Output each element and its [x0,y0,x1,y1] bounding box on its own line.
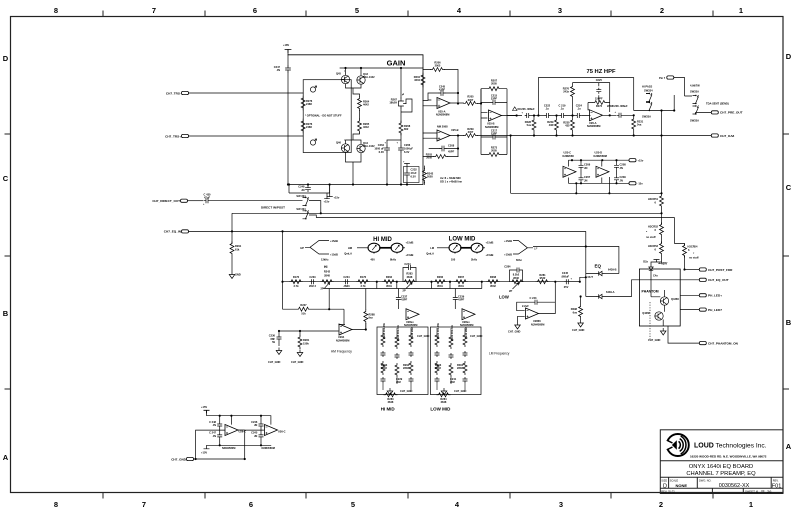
svg-text:+15dB: +15dB [406,241,414,245]
resistor R208 [399,121,411,135]
svg-text:H3CR53: H3CR53 [648,244,659,248]
title block outline [660,430,783,494]
wire main vertical right [661,111,663,195]
svg-text:R176: R176 [293,275,300,279]
svg-text:-15v: -15v [638,182,644,186]
resistor R207 [481,79,507,91]
pot loop B C284 [504,265,524,294]
wire to caps [387,133,401,146]
svg-text:SW33A: SW33A [642,115,651,119]
svg-text:SW33A: SW33A [690,90,699,94]
svg-text:+18V: +18V [283,43,289,47]
svg-text:+15v: +15v [638,159,644,163]
svg-text:OUT: OUT [588,275,594,279]
svg-text:1000 uF: 1000 uF [374,147,384,151]
switch HI PASS SW334 [634,85,675,119]
wire gain box left [287,72,289,185]
svg-text:C266: C266 [404,143,411,147]
svg-text:JN: JN [254,434,257,438]
svg-text:C: C [3,174,9,183]
svg-text:5va: 5va [637,123,642,127]
svg-text:C242 2N2: C242 2N2 [464,327,468,339]
switch SW33A right [674,84,711,123]
svg-text:6.3V: 6.3V [379,150,385,154]
resistor R227 [297,303,311,316]
svg-text:2SA-1162: 2SA-1162 [363,144,375,148]
wire opamp A io [423,100,464,105]
svg-text:+15dB: +15dB [486,241,494,245]
svg-text:SHEET: SHEET [745,490,755,494]
svg-text:23PF: 23PF [491,97,498,101]
svg-text:25V: 25V [564,285,569,289]
svg-text:R242: R242 [324,270,331,274]
zone labels left [3,54,9,462]
wire +15v stub [327,185,340,200]
wire drop to eq rail [282,231,284,309]
resistor R209 [464,127,478,138]
op-amp buffer D [596,160,609,183]
svg-text:R266: R266 [437,275,444,279]
resistor H3CR51 [648,194,663,208]
svg-text:C: C [786,183,792,192]
svg-text:2488: 2488 [306,125,312,129]
op-amp U26-C [222,425,246,451]
rail1-rail2 links [377,282,482,289]
svg-text:+15dB: +15dB [330,253,338,257]
connector CH7_PHANTOM_ON [668,326,739,346]
svg-text:HP: HP [300,246,304,250]
svg-text:CH7_TRS+: CH7_TRS+ [165,134,181,138]
svg-text:.1u: .1u [560,107,564,111]
svg-text:1: 1 [749,500,753,509]
svg-text:2005: 2005 [427,175,433,179]
svg-text:EQ: EQ [595,264,602,269]
svg-text:C225: C225 [596,78,603,82]
resistor H3CR52 [646,223,664,240]
resistor R272 [593,101,614,109]
wire emitter couple bottom [346,133,362,145]
ground R298 [572,319,585,333]
resistor R266 [433,275,447,288]
capacitor C233 [309,275,316,288]
svg-text:CH7_EQ_OUT: CH7_EQ_OUT [708,278,729,282]
svg-text:HI MID: HI MID [373,237,392,243]
svg-text:no stuff: no stuff [646,235,656,239]
transistor Q46 [336,139,350,153]
switch SW304 direct B [261,206,316,220]
op-amp U28-B [460,309,475,327]
svg-text:JN: JN [213,434,216,438]
op-amp U26-A [587,110,603,128]
svg-text:CHANNEL 7 PREAMP, EQ: CHANNEL 7 PREAMP, EQ [686,471,756,477]
svg-text:QmLA: QmLA [344,252,352,256]
svg-text:8kHz: 8kHz [390,258,397,262]
svg-text:GAIN: GAIN [387,59,406,68]
capacitor C236 [269,334,282,345]
svg-text:1000uF: 1000uF [404,147,413,151]
svg-text:CH7_GND: CH7_GND [268,360,281,364]
wire path seg2 [566,115,590,117]
svg-text:43PF: 43PF [401,298,408,302]
svg-text:DIRECT IN/POST: DIRECT IN/POST [261,206,285,210]
svg-text:JN: JN [301,188,304,192]
svg-text:9532: 9532 [540,276,546,280]
svg-text:7: 7 [142,500,146,509]
EQ rail wire [282,281,580,283]
capacitor C245 out [561,271,573,289]
svg-text:PH_LED+: PH_LED+ [708,294,722,298]
ground R280 [291,350,304,365]
LOUD logo [662,434,689,456]
svg-text:2848: 2848 [457,366,463,370]
svg-text:2N2 3: 2N2 3 [309,284,316,288]
wire opamp B io [423,133,464,138]
connector CH7_GND bottom [171,457,193,461]
capacitor C226 [519,107,535,118]
transistor Q45 [336,70,350,84]
wire input 2 [189,135,304,137]
wire opamp1 top feed [230,416,232,425]
resistor R276 [301,96,313,110]
LM block parts [435,322,483,395]
wire cap column 2 [260,416,262,446]
resistor R268 [486,275,500,288]
wire to diode [651,256,662,265]
svg-text:75 HZ HPF: 75 HZ HPF [587,69,616,75]
wire mid column [360,68,402,119]
svg-text:C233: C233 [309,275,316,279]
capacitor C248 [298,185,310,192]
connector +15v [629,159,644,163]
wire stage2 feedback [481,89,517,155]
svg-text:3: 3 [559,500,563,509]
resistor R273 [481,145,507,156]
svg-text:26: 26 [767,489,772,494]
svg-text:HI PASS: HI PASS [642,85,652,89]
svg-text:CH7_OA8: CH7_OA8 [720,134,735,138]
resistor R242 [423,166,434,185]
potentiometer HM b [379,241,413,262]
svg-text:16220 WOOD-RED RD. N.E. WOODIN: 16220 WOOD-RED RD. N.E. WOODINVILLE, WA … [690,455,767,459]
resistor R231 [632,117,644,136]
wire out node [570,277,586,281]
svg-text:Pin 7: Pin 7 [659,76,666,80]
transistor Q4367 [642,311,663,320]
connector Pin 7 [659,76,692,96]
svg-text:CH7_GND: CH7_GND [171,457,187,461]
svg-text:0030562-XX: 0030562-XX [719,483,750,489]
capacitor C215 [481,93,507,105]
phantom box [639,269,680,326]
junction dots eqmid [231,183,483,282]
capacitor C248b [209,420,222,428]
input network box [303,80,351,153]
resistor R284 [536,273,550,284]
svg-text:Technologies Inc.: Technologies Inc. [716,443,767,450]
wire top rail [207,410,272,415]
power +18V [283,43,291,53]
wire diode to phantom box [650,273,652,297]
junction dots eqnet [278,276,587,332]
svg-text:CH7_GND: CH7_GND [291,360,304,364]
capacitor C222 [544,104,551,119]
HP fork [300,239,338,262]
capacitor C247 [274,65,291,72]
svg-text:HI MID: HI MID [381,407,396,412]
jfet Q47 [389,93,406,108]
resistor R283 bottom HM [384,393,398,404]
lower signal wire CH7 [477,135,711,137]
svg-text:47uF: 47uF [411,171,417,175]
capacitor C237 [396,289,408,310]
svg-text:8: 8 [54,6,58,15]
wire EQ drop [586,231,597,296]
capacitor C206 [579,163,591,170]
resistor R177 [356,275,370,288]
resistor R288 [364,289,375,330]
junction dots [287,67,459,186]
op-amp buffer C [563,160,576,183]
capacitor C219 [559,104,566,119]
svg-text:PHANTOM: PHANTOM [642,290,659,294]
svg-text:CH7_GND: CH7_GND [454,389,467,393]
connector -15v [629,182,643,186]
svg-text:LOW MID: LOW MID [449,237,476,243]
svg-text:R267: R267 [458,275,465,279]
svg-text:R268: R268 [490,275,497,279]
svg-text:QmLA: QmLA [426,252,434,256]
svg-text:2848: 2848 [403,366,409,370]
svg-text:2: 2 [660,6,664,15]
svg-text:2kHz: 2kHz [471,258,478,262]
svg-text:NJM4580M: NJM4580M [336,338,349,342]
wire stage2 input [477,89,487,118]
HM block parts [381,322,430,395]
svg-text:4642: 4642 [363,125,369,129]
svg-text:3204: 3204 [414,78,420,82]
svg-text:+15dB: +15dB [504,253,512,257]
junction dots stage2 [480,102,675,194]
connector PH_LED7 [680,308,722,312]
svg-text:SIZE: SIZE [661,479,667,483]
svg-text:CH7_GND: CH7_GND [417,334,430,338]
svg-text:A: A [786,442,792,451]
wire C236 R280 top [279,331,339,349]
svg-text:C244: C244 [404,262,411,266]
connector CH7_EQ_IN [164,230,189,234]
capacitor C245 [439,85,446,96]
pot loop A C244 [403,262,417,293]
svg-text:3: 3 [558,6,562,15]
svg-text:9531: 9531 [437,284,443,288]
transistor Q43 [357,72,375,84]
resistor R264 [358,97,370,111]
wire lower feedback [457,136,459,157]
svg-text:R298: R298 [571,307,578,311]
svg-text:R262: R262 [386,275,393,279]
capacitor C228 [612,104,628,118]
svg-text:R291: R291 [235,244,242,248]
svg-text:D: D [786,52,792,61]
wire opamp1 fb [352,323,366,330]
wire R227 to HM opamp [283,289,346,325]
svg-text:NM 2068: NM 2068 [437,125,448,129]
svg-text:2848: 2848 [407,275,413,279]
wire input 1 [189,92,304,94]
op-amp U25-B lower [437,125,459,142]
jack symbol top [310,86,316,92]
wire bottom rail [204,445,272,449]
wire jfet loop [401,99,412,123]
svg-text:SW33A: SW33A [690,119,699,123]
svg-text:C228 .068uF: C228 .068uF [612,104,628,108]
svg-text:NJM4580M: NJM4580M [460,323,473,327]
wire upper feedback [423,70,458,104]
svg-text:TDA-SENT (SEND): TDA-SENT (SEND) [706,102,729,106]
svg-text:JN: JN [620,178,623,182]
svg-text:2848: 2848 [513,276,519,280]
op-amp U294 HM [336,324,352,342]
svg-text:5: 5 [355,6,359,15]
svg-text:no stuff: no stuff [689,256,699,260]
svg-text:NJM2068M: NJM2068M [594,154,607,158]
wire to HPF [531,115,545,117]
jack symbol bottom [310,139,316,145]
svg-text:9xx: 9xx [369,316,374,320]
input connector CH7_TRS- [166,91,189,95]
svg-text:47uF: 47uF [204,195,210,199]
svg-text:D2x: D2x [643,260,648,264]
svg-text:+15dB: +15dB [406,253,414,257]
svg-text:Q46: Q46 [336,141,341,145]
svg-text:JN23: JN23 [343,284,350,288]
svg-text:LM: LM [430,246,434,250]
svg-text:2848: 2848 [324,273,330,277]
svg-text:* OPTIONAL - DO NOT STUFF: * OPTIONAL - DO NOT STUFF [305,114,342,118]
resistor R276b hpf [563,83,575,116]
svg-text:150k: 150k [303,341,309,345]
wire opamp2 top feed [270,416,272,425]
wire C245 feedback [428,93,458,100]
wire to bus1 [661,208,663,224]
wire to switch [210,200,303,202]
svg-text:2P: 2P [509,289,512,293]
buffer supply rails [563,151,630,184]
wire cap col2 buffer [616,160,618,183]
wire diode B out [605,273,619,275]
potentiometer HM a [344,243,380,261]
svg-text:H3CR51: H3CR51 [648,197,659,201]
op-amp U28-A [404,309,419,327]
svg-text:F01: F01 [772,484,781,490]
svg-text:OF: OF [761,489,765,493]
svg-text:R296 301-1%: R296 301-1% [396,324,400,341]
capacitor C208 [429,144,458,154]
svg-text:+15v: +15v [324,199,330,203]
svg-text:NONE: NONE [676,483,688,488]
svg-text:R283: R283 [406,272,413,276]
wire between [661,237,663,244]
svg-text:HM: HM [348,246,352,250]
wire hpf out [590,114,617,116]
svg-text:R301 301-1%: R301 301-1% [436,322,440,339]
svg-text:+15V: +15V [201,405,207,409]
svg-text:2005: 2005 [491,82,497,86]
resistor R205 [464,95,478,106]
svg-text:150PF: 150PF [595,97,603,101]
svg-text:1: 1 [739,6,743,15]
resistor R203 [423,153,458,160]
svg-text:C 243: C 243 [530,296,537,300]
svg-text:+15dB: +15dB [330,239,338,243]
svg-text:.068uF: .068uF [561,274,570,278]
resistor R230 shunt [563,116,574,136]
svg-text:243x: 243x [563,90,569,94]
svg-text:B: B [3,309,9,318]
svg-text:C232: C232 [411,168,418,172]
connector CH7_DIRECT_OUT [152,199,187,203]
svg-text:CH7_DIRECT_OUT: CH7_DIRECT_OUT [152,199,180,203]
svg-text:JN: JN [620,166,623,170]
capacitor C208b [614,163,626,170]
svg-text:CH7_POST_FDR: CH7_POST_FDR [708,268,733,272]
svg-text:REV.: REV. [773,479,779,483]
svg-text:2005: 2005 [435,64,441,68]
resistor R284 bottom LM [437,393,451,404]
LM block [430,327,481,395]
capacitor C224 [575,104,582,119]
connector CH7_OA8 [711,134,734,138]
svg-text:2848: 2848 [441,400,447,404]
svg-text:NJM4580M: NJM4580M [531,322,544,326]
capacitor C247b [209,431,222,439]
zone labels right [786,52,792,451]
ground R291 [229,256,241,279]
svg-text:2.2uF: 2.2uF [522,304,529,308]
svg-text:2488: 2488 [306,102,312,106]
svg-text:2: 2 [659,500,663,509]
input connector CH7_TRS+ [165,134,188,138]
svg-text:NJM2068M: NJM2068M [485,125,498,129]
resistor R206 feedback [431,61,445,72]
capacitor C245b [251,431,263,439]
svg-text:6439-A: 6439-A [606,290,615,294]
svg-text:+48V: +48V [658,261,668,266]
capacitor C239 [453,289,465,310]
svg-text:6: 6 [249,500,253,509]
svg-text:U26-C: U26-C [278,429,286,433]
junction dots rightcol [580,192,686,297]
wire LF net [533,247,619,274]
svg-text:OD 1 x +40dB line: OD 1 x +40dB line [440,180,463,184]
power +15V bottom [201,405,210,414]
svg-text:N3M4580M: N3M4580M [262,446,275,450]
svg-text:CH7_GND: CH7_GND [400,389,413,393]
transistor Q4366 [660,297,679,305]
wire buffer to rail2 [576,177,609,193]
bus wire 1 [232,212,662,214]
svg-text:+15V: +15V [201,451,207,455]
op-amp U25-A [436,98,450,117]
svg-text:LOW: LOW [499,295,509,300]
wire HPF feedback top [538,78,633,116]
svg-text:NJM4580M: NJM4580M [404,323,417,327]
junction dots botleft [195,415,263,461]
power +15v stub [324,193,330,203]
svg-text:60hz: 60hz [516,258,522,262]
svg-text:2848: 2848 [388,400,394,404]
resistor R277 [301,119,313,133]
